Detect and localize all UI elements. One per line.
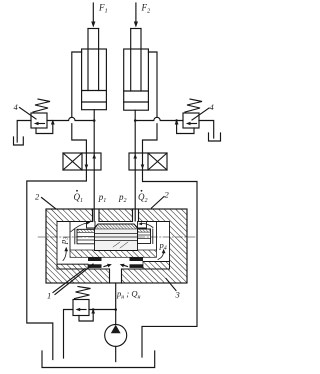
inner cavity outline bbox=[57, 221, 93, 223]
divider internals bbox=[57, 222, 170, 268]
junction dot left relief line bbox=[93, 119, 96, 122]
wire main line C1 to valve bbox=[93, 110, 95, 153]
svg-text:4: 4 bbox=[14, 102, 19, 112]
junction dot right relief line bbox=[134, 119, 137, 122]
junction dot pump line bbox=[114, 308, 117, 311]
pilot loop bbox=[36, 123, 53, 134]
svg-text:p1: p1 bbox=[98, 192, 107, 204]
wire supply right valve to divider bbox=[134, 170, 136, 221]
drain bbox=[64, 310, 74, 359]
drain to tank bbox=[199, 121, 214, 139]
central piston bbox=[95, 224, 138, 251]
svg-text:Q2: Q2 bbox=[138, 192, 148, 204]
svg-text:2: 2 bbox=[165, 190, 170, 200]
spring bbox=[33, 99, 50, 112]
tank symbol left bbox=[14, 137, 24, 145]
pilot loop bbox=[79, 312, 93, 322]
svg-text:F2: F2 bbox=[141, 3, 152, 15]
svg-text:1: 1 bbox=[47, 291, 51, 301]
wire rod-side tap C2 bbox=[148, 52, 157, 117]
pump bbox=[105, 324, 127, 361]
drain to tank bbox=[17, 121, 31, 143]
curved arrow right channel p4 bbox=[158, 252, 164, 260]
flow arrow bottom left bbox=[104, 265, 109, 267]
right channel lower edge bbox=[143, 261, 170, 263]
svg-text:2: 2 bbox=[35, 192, 40, 202]
left slot edge bbox=[69, 222, 71, 251]
inner hatched panels bbox=[70, 250, 157, 257]
cylinder C2 (right) bbox=[124, 29, 149, 111]
spool left stem bbox=[74, 229, 76, 244]
flow divider block walls bbox=[46, 209, 187, 283]
svg-text:p2: p2 bbox=[118, 192, 127, 204]
tank symbol right bbox=[209, 133, 221, 141]
arrow inside bbox=[189, 123, 197, 125]
svg-text:p3: p3 bbox=[58, 237, 70, 245]
wire pump to divider bbox=[115, 283, 117, 324]
spool right stem bbox=[152, 229, 154, 244]
spring bbox=[185, 99, 202, 112]
curved arrow left channel p3 bbox=[63, 250, 66, 261]
line to main bbox=[89, 309, 116, 311]
flow arrow bottom right bbox=[123, 265, 128, 267]
orifice restrictor left (1) bbox=[88, 257, 102, 261]
force arrow F1 bbox=[91, 3, 95, 28]
right slot edge bbox=[156, 222, 158, 251]
arrow inside bbox=[79, 309, 87, 311]
spring bbox=[75, 287, 91, 299]
pilot loop bbox=[177, 123, 194, 134]
wire relief line left bbox=[47, 117, 94, 120]
wire return right bbox=[142, 170, 197, 357]
svg-text:F1: F1 bbox=[98, 3, 108, 15]
svg-text:p4: p4 bbox=[159, 240, 167, 252]
port channel walls bbox=[92, 209, 94, 222]
svg-text:Q1: Q1 bbox=[74, 192, 84, 204]
directional valve right bbox=[129, 153, 167, 170]
svg-text:3: 3 bbox=[175, 290, 180, 300]
flow arrow into left seat bbox=[71, 223, 87, 232]
relief valve 4 (right) bbox=[175, 99, 221, 141]
right seat cup bbox=[138, 222, 147, 229]
wire main line C2 to valve bbox=[134, 110, 136, 153]
wire rod-side tap C1 bbox=[72, 52, 82, 117]
orifice restrictor right (1) bbox=[130, 257, 144, 261]
svg-text:4: 4 bbox=[210, 102, 215, 112]
left channel lower edge bbox=[57, 263, 88, 265]
wire supply left valve to divider bbox=[93, 170, 95, 221]
left seat cup bbox=[87, 222, 96, 229]
svg-text:pн ; Qн: pн ; Qн bbox=[116, 289, 140, 301]
flow arrow into right seat bbox=[141, 223, 153, 227]
block outer outline bbox=[46, 209, 187, 283]
arrow inside bbox=[37, 123, 45, 125]
relief valve 4 (left) bbox=[14, 99, 55, 145]
force arrow F2 bbox=[134, 3, 138, 28]
centerline bbox=[38, 236, 195, 238]
cylinder C1 (left) bbox=[82, 29, 107, 110]
tank bbox=[42, 351, 155, 368]
directional valve left bbox=[63, 153, 101, 170]
relief valve pump bbox=[64, 287, 116, 359]
wire relief line right bbox=[135, 117, 183, 120]
wire return left bbox=[27, 170, 87, 360]
